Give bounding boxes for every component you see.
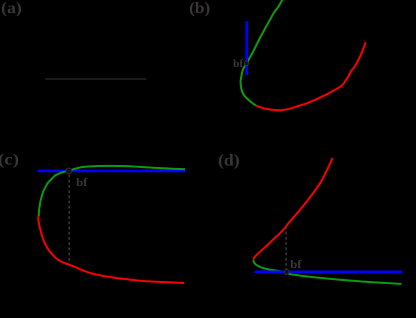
panel b: bifurcation point dot: [244, 61, 248, 65]
panel b: green stable branch: [241, 0, 284, 105]
panel a: flat branch line: [45, 78, 146, 80]
svg-text:(a): (a): [1, 0, 22, 17]
svg-text:bf: bf: [290, 259, 301, 271]
panel c: green stable branch: [39, 166, 185, 216]
panel d: blue horizontal branch: [255, 270, 403, 273]
panel c: red unstable branch: [38, 216, 184, 283]
svg-text:(c): (c): [0, 152, 19, 169]
svg-text:(b): (b): [189, 0, 210, 17]
panel d: green stable branch: [253, 260, 401, 284]
panel c: blue horizontal branch: [38, 170, 186, 173]
svg-text:(d): (d): [218, 151, 240, 170]
svg-text:bf: bf: [233, 58, 244, 70]
panel d: dashed guide line: [285, 227, 287, 270]
svg-text:bf: bf: [76, 177, 87, 189]
panel d: bifurcation point dot: [284, 269, 289, 274]
panel d: red unstable branch: [253, 158, 332, 259]
panel b: red unstable branch: [256, 42, 366, 110]
panel c: bifurcation point dot: [66, 168, 72, 174]
panel b: blue vertical branch: [245, 21, 248, 75]
panel c: dashed guide line: [68, 175, 70, 264]
